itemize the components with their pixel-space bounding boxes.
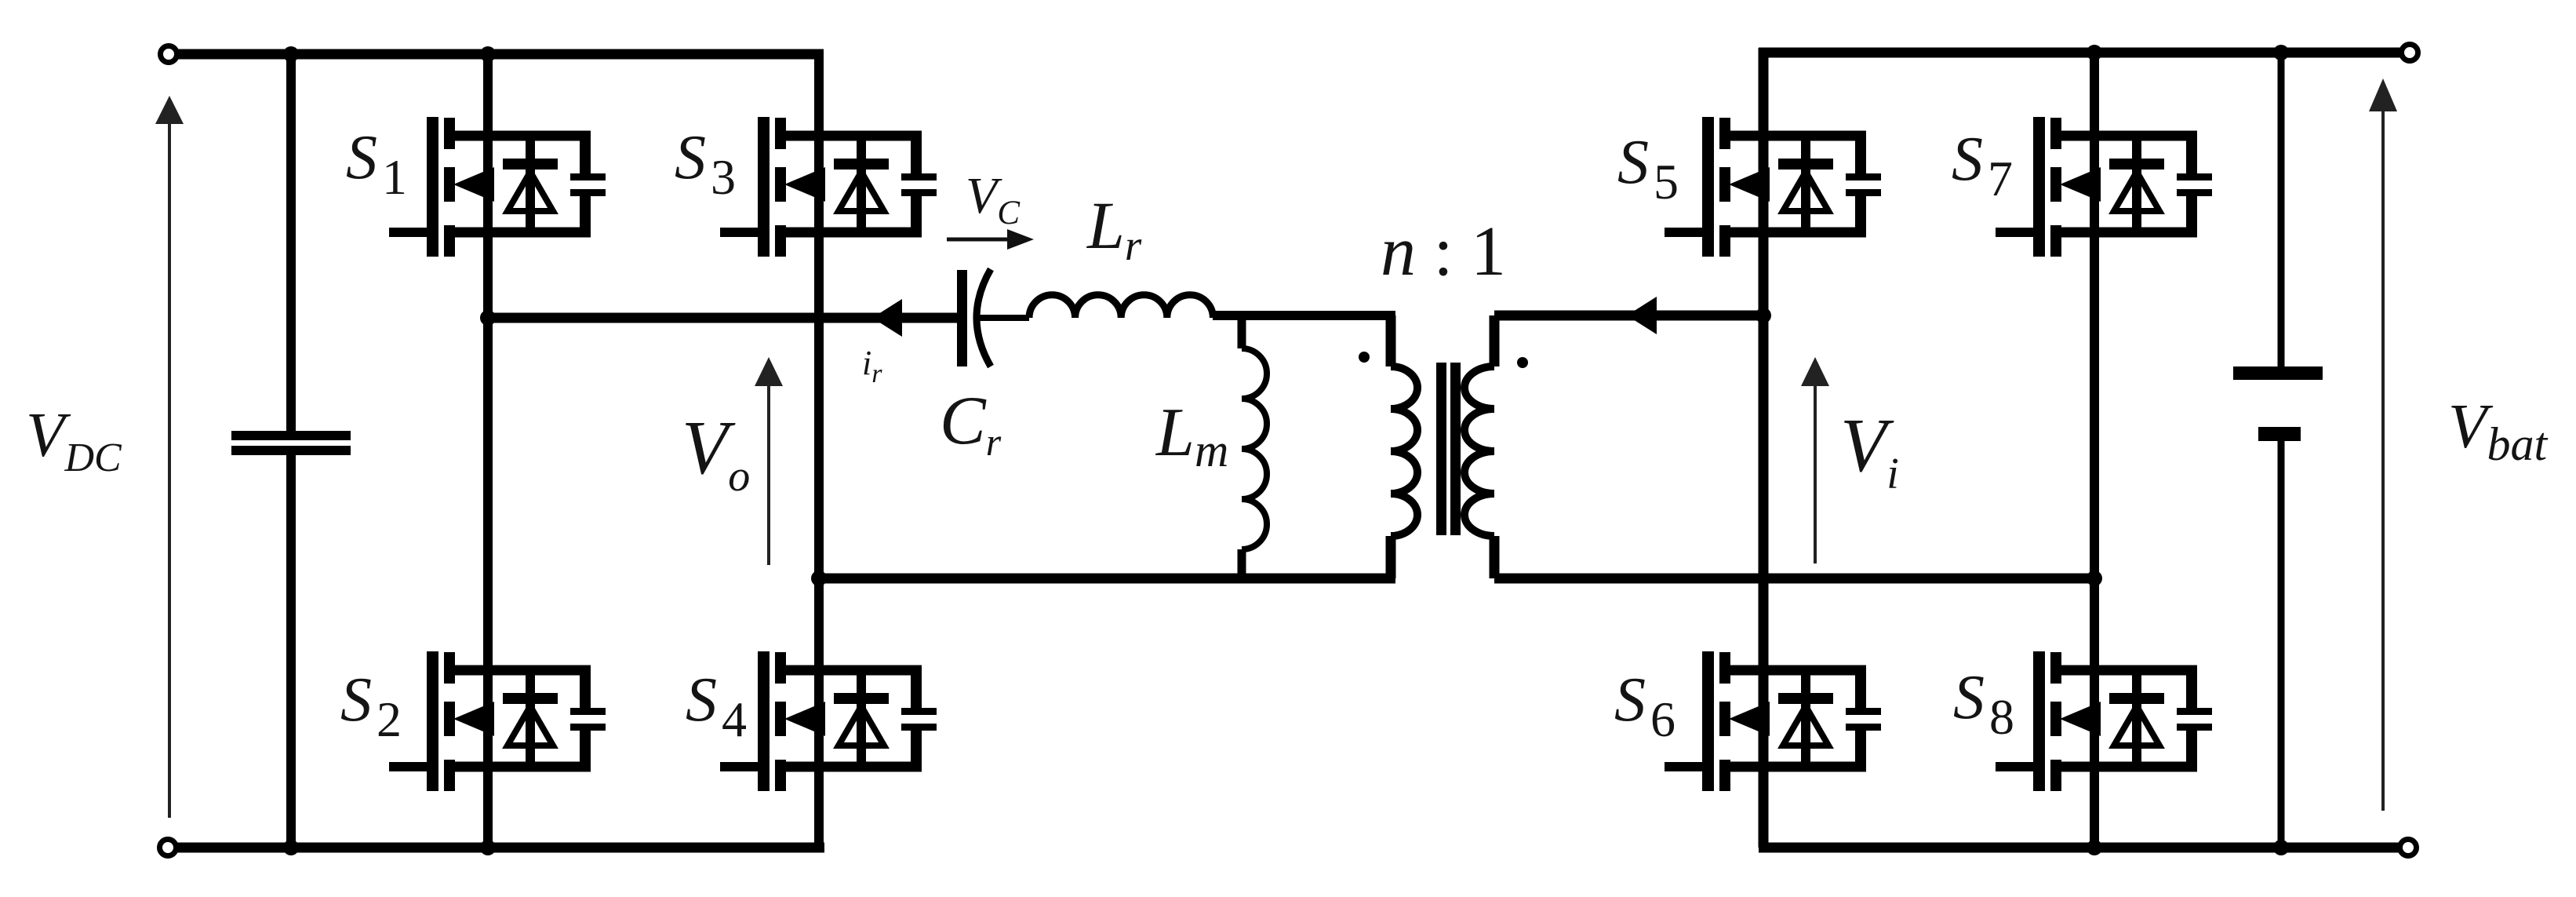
arrow: V_bat direction [2381,110,2385,811]
arrow: V_DC direction [168,119,171,818]
svg-text:S2: S2 [340,665,402,747]
transformer secondary vertical leads [1490,315,1500,366]
transistor S5 [1665,117,1881,257]
svg-text:VC: VC [966,167,1021,232]
wire: S3/S4 bridge leg [814,49,824,848]
wire: Cr to Lr [978,315,1029,321]
svg-text:Vi: Vi [1840,403,1899,498]
junction: left bridge midpoint node [480,310,496,326]
arrow: resonant current i_r [872,299,902,337]
junction: S1 drain node [480,46,496,62]
svg-text:S4: S4 [686,665,747,747]
junction: S5/S6 midpoint node [1756,308,1771,323]
transistor S1 [389,117,606,257]
svg-text:S7: S7 [1952,125,2013,206]
transformer secondary winding [1464,366,1494,536]
transistor S3 [720,117,937,257]
wire: left bridge mid rail to resonant tank [488,313,958,323]
inductor Lr [1029,295,1213,318]
junction: S7/S8 midpoint node [2087,571,2102,586]
wire: secondary top lead [1494,311,1763,321]
svg-text:S5: S5 [1617,128,1679,210]
arrow: V_C direction [947,238,1012,242]
junction: battery top node [2273,45,2289,60]
junction: Cin bottom node [283,840,299,855]
arrow: V_i direction [1814,385,1817,563]
wire: Lr to transformer primary [1213,311,1395,320]
junction: S2 source node [480,840,496,855]
transistor S4 [720,651,937,791]
junction: S3/S4 midpoint node [811,571,827,586]
wire: top rail of right bridge [1759,48,2400,58]
terminal: top left [161,46,177,63]
junction: S8 source node [2087,840,2102,855]
svg-text:ir: ir [862,344,882,388]
transformer core bars [1436,363,1446,535]
junction: battery bottom node [2273,840,2289,855]
wire: tank bottom rail [819,574,1395,584]
wire: secondary bottom lead [1494,574,2094,584]
wire: top rail of left bridge [169,49,824,60]
transformer primary winding [1391,366,1417,536]
terminal: bottom left [160,840,176,856]
transistor S8 [1996,651,2212,791]
transistor S2 [389,651,606,791]
capacitor: DC-link Cin vertical leads [286,54,296,432]
wire: bottom rail of right bridge [1759,843,2399,853]
terminal: bottom right [2400,840,2417,856]
wire: bottom rail of left bridge [168,843,824,853]
battery V_bat leads [2278,53,2285,368]
terminal: top right [2402,45,2418,61]
transformer primary vertical leads [1386,315,1396,366]
svg-text:S1: S1 [346,123,407,205]
svg-text:VDC: VDC [26,399,122,480]
battery long plate [2233,366,2323,380]
transistor S6 [1665,651,1881,791]
svg-text:Vbat: Vbat [2448,391,2548,470]
junction: S7 drain node [2087,45,2102,60]
svg-text:Cr: Cr [940,383,1002,464]
transistor S7 [1996,117,2212,257]
svg-text:S6: S6 [1614,665,1675,747]
svg-text:Lm: Lm [1155,395,1228,476]
junction: Cin top node [283,46,299,62]
capacitor Cr curved plate [977,269,991,366]
wire: S7/S8 bridge leg [2090,53,2099,848]
inductor Lm coil [1242,348,1267,549]
wire: S1/S2 bridge leg [483,54,493,848]
svg-text:Vo: Vo [682,406,750,501]
svg-text:Lr: Lr [1086,188,1142,269]
wire: S5/S6 bridge leg [1759,48,1769,848]
svg-text:n : 1: n : 1 [1381,213,1506,290]
svg-text:S8: S8 [1953,663,2014,745]
transformer polarity dot secondary [1517,357,1528,368]
battery short plate [2258,427,2301,441]
arrow: secondary current [1627,297,1657,334]
svg-text:S3: S3 [675,123,736,205]
arrow: V_o direction [767,385,770,565]
transformer polarity dot primary [1359,352,1370,363]
capacitor: DC-link Cin plates [231,431,351,440]
inductor Lm vertical leads [1238,315,1246,348]
capacitor Cr left plate [957,270,967,366]
